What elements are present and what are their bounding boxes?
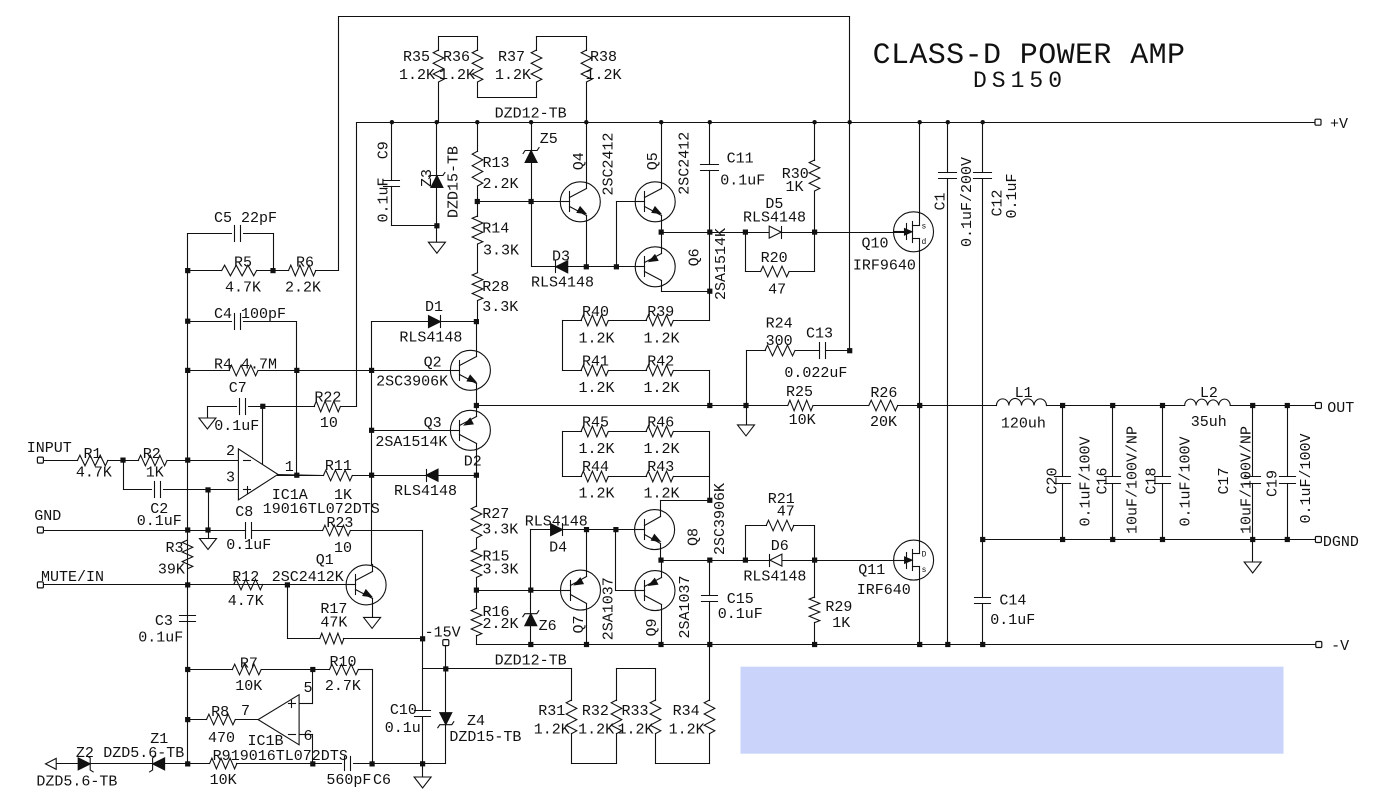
svg-text:0.1uF: 0.1uF <box>137 513 182 530</box>
svg-text:R9: R9 <box>213 748 231 765</box>
svg-text:C4 100pF: C4 100pF <box>214 306 286 323</box>
svg-text:D3: D3 <box>552 249 570 266</box>
svg-text:2.7K: 2.7K <box>325 678 361 695</box>
svg-text:3: 3 <box>226 470 235 487</box>
svg-text:DGND: DGND <box>1323 534 1359 551</box>
svg-text:1.2K: 1.2K <box>439 67 475 84</box>
svg-text:3.3K: 3.3K <box>482 299 518 316</box>
svg-text:+V: +V <box>1330 116 1348 133</box>
svg-text:0.1uF/100V: 0.1uF/100V <box>1078 436 1095 526</box>
svg-text:120uh: 120uh <box>1001 416 1046 433</box>
svg-text:C17: C17 <box>1216 467 1233 494</box>
svg-text:R11: R11 <box>325 458 352 475</box>
svg-text:R45: R45 <box>582 415 609 432</box>
svg-text:L1: L1 <box>1015 385 1033 402</box>
svg-text:3.3K: 3.3K <box>483 562 519 579</box>
svg-text:s: s <box>922 222 927 231</box>
svg-text:10: 10 <box>320 415 338 432</box>
svg-text:1.2K: 1.2K <box>579 486 615 503</box>
svg-text:47: 47 <box>777 504 795 521</box>
svg-text:RLS4148: RLS4148 <box>399 330 462 347</box>
svg-text:10uF/100V/NP: 10uF/100V/NP <box>1239 426 1256 534</box>
svg-text:R13: R13 <box>483 155 510 172</box>
svg-text:R27: R27 <box>482 506 509 523</box>
svg-text:1: 1 <box>285 459 294 476</box>
svg-text:DZD15-TB: DZD15-TB <box>446 146 463 218</box>
svg-text:RLS4148: RLS4148 <box>743 210 806 227</box>
svg-text:MUTE/IN: MUTE/IN <box>41 569 104 586</box>
svg-text:-15V: -15V <box>425 625 461 642</box>
svg-text:1.2K: 1.2K <box>534 721 570 738</box>
svg-text:470: 470 <box>208 730 235 747</box>
svg-text:D4: D4 <box>549 540 567 557</box>
svg-text:560pF: 560pF <box>326 772 371 789</box>
svg-text:OUT: OUT <box>1327 400 1354 417</box>
svg-text:0.1uF/200V: 0.1uF/200V <box>959 157 976 247</box>
svg-text:Q5: Q5 <box>645 152 662 170</box>
svg-text:s: s <box>922 566 927 575</box>
svg-text:2SA1037: 2SA1037 <box>677 575 694 638</box>
svg-text:5: 5 <box>304 680 313 697</box>
svg-text:DZD12-TB: DZD12-TB <box>495 106 567 123</box>
svg-text:2SA1514K: 2SA1514K <box>713 228 730 300</box>
svg-text:DZD5.6-TB: DZD5.6-TB <box>36 774 117 791</box>
svg-text:2: 2 <box>226 443 235 460</box>
svg-text:C13: C13 <box>806 326 833 343</box>
svg-text:2SA1514K: 2SA1514K <box>375 434 447 451</box>
svg-text:0.1uF: 0.1uF <box>375 177 392 222</box>
svg-text:C11: C11 <box>727 151 754 168</box>
svg-text:Q7: Q7 <box>571 615 588 633</box>
svg-text:R28: R28 <box>482 279 509 296</box>
svg-text:R5: R5 <box>234 255 252 272</box>
svg-text:R25: R25 <box>786 384 813 401</box>
svg-text:10K: 10K <box>235 678 262 695</box>
svg-text:2SC2412: 2SC2412 <box>600 132 617 195</box>
svg-text:Q6: Q6 <box>686 248 703 266</box>
svg-text:Z5: Z5 <box>540 131 558 148</box>
svg-text:RLS4148: RLS4148 <box>394 483 457 500</box>
svg-text:2SC3906K: 2SC3906K <box>712 483 729 555</box>
svg-text:1.2K: 1.2K <box>669 721 705 738</box>
svg-text:R42: R42 <box>647 354 674 371</box>
svg-text:0.022uF: 0.022uF <box>784 365 847 382</box>
svg-text:1.2K: 1.2K <box>579 331 615 348</box>
svg-text:R12: R12 <box>232 569 259 586</box>
svg-text:Z2: Z2 <box>76 745 94 762</box>
svg-text:Q4: Q4 <box>571 152 588 170</box>
svg-text:C10: C10 <box>390 702 417 719</box>
svg-text:1.2K: 1.2K <box>644 441 680 458</box>
svg-text:R39: R39 <box>647 304 674 321</box>
svg-text:R1: R1 <box>84 446 102 463</box>
svg-text:R24: R24 <box>766 316 793 333</box>
svg-text:4.7K: 4.7K <box>228 593 264 610</box>
svg-text:R37: R37 <box>498 49 525 66</box>
svg-text:RLS4148: RLS4148 <box>525 514 588 531</box>
svg-text:2SC2412K: 2SC2412K <box>272 569 344 586</box>
svg-text:R43: R43 <box>647 459 674 476</box>
svg-text:R6: R6 <box>296 255 314 272</box>
svg-text:1.2K: 1.2K <box>579 441 615 458</box>
svg-text:Q1: Q1 <box>316 552 334 569</box>
svg-text:2.2K: 2.2K <box>483 616 519 633</box>
svg-text:1.2K: 1.2K <box>644 331 680 348</box>
svg-text:R8: R8 <box>211 704 229 721</box>
svg-text:1.2K: 1.2K <box>579 380 615 397</box>
svg-text:C20: C20 <box>1045 467 1062 494</box>
svg-text:4.7K: 4.7K <box>225 280 261 297</box>
svg-text:RLS4148: RLS4148 <box>743 569 806 586</box>
svg-text:RLS4148: RLS4148 <box>531 275 594 292</box>
svg-text:R41: R41 <box>582 354 609 371</box>
svg-text:1.2K: 1.2K <box>644 380 680 397</box>
svg-text:3.3K: 3.3K <box>483 243 519 260</box>
svg-text:1.2K: 1.2K <box>644 486 680 503</box>
svg-text:2.2K: 2.2K <box>285 280 321 297</box>
svg-text:0.1u: 0.1u <box>385 720 421 737</box>
svg-text:Z3: Z3 <box>419 169 436 187</box>
svg-text:Q9: Q9 <box>644 618 661 636</box>
svg-text:4.7K: 4.7K <box>76 465 112 482</box>
svg-text:0.1uF/100V: 0.1uF/100V <box>1298 433 1315 523</box>
svg-text:20K: 20K <box>870 414 897 431</box>
svg-text:R22: R22 <box>314 390 341 407</box>
svg-text:0.1uF: 0.1uF <box>718 606 763 623</box>
svg-text:C8: C8 <box>235 504 253 521</box>
svg-text:1.2K: 1.2K <box>586 67 622 84</box>
svg-text:Q2: Q2 <box>424 355 442 372</box>
svg-text:DZD5.6-TB: DZD5.6-TB <box>103 745 184 762</box>
svg-text:R34: R34 <box>673 703 700 720</box>
svg-text:C18: C18 <box>1143 467 1160 494</box>
svg-text:C5 22pF: C5 22pF <box>214 210 277 227</box>
svg-text:47: 47 <box>768 282 786 299</box>
svg-text:1K: 1K <box>786 179 804 196</box>
svg-text:Q3: Q3 <box>424 415 442 432</box>
svg-text:C7: C7 <box>229 380 247 397</box>
svg-text:Z4: Z4 <box>467 713 485 730</box>
svg-text:IRF640: IRF640 <box>857 582 911 599</box>
svg-text:R7: R7 <box>240 656 258 673</box>
svg-text:R4 4.7M: R4 4.7M <box>214 357 277 374</box>
svg-text:10K: 10K <box>210 772 237 789</box>
svg-text:R26: R26 <box>870 385 897 402</box>
svg-text:7: 7 <box>241 703 250 720</box>
svg-text:2SC2412: 2SC2412 <box>677 132 694 195</box>
svg-text:R35: R35 <box>403 49 430 66</box>
svg-text:300: 300 <box>766 333 793 350</box>
svg-text:1K: 1K <box>146 465 164 482</box>
svg-text:0.1uF: 0.1uF <box>1004 173 1021 218</box>
svg-text:R32: R32 <box>582 703 609 720</box>
svg-text:47K: 47K <box>320 615 347 632</box>
svg-text:0.1uF: 0.1uF <box>990 612 1035 629</box>
svg-text:R14: R14 <box>482 221 509 238</box>
svg-text:10uF/100V/NP: 10uF/100V/NP <box>1125 426 1142 534</box>
svg-text:1.2K: 1.2K <box>618 721 654 738</box>
svg-text:d: d <box>922 238 927 247</box>
svg-text:D2: D2 <box>464 454 482 471</box>
svg-text:10K: 10K <box>789 412 816 429</box>
svg-text:IRF9640: IRF9640 <box>853 258 916 275</box>
svg-text:6: 6 <box>304 728 313 745</box>
svg-text:1.2K: 1.2K <box>399 67 435 84</box>
svg-text:R29: R29 <box>825 599 852 616</box>
svg-text:R33: R33 <box>622 703 649 720</box>
svg-text:C14: C14 <box>999 593 1026 610</box>
svg-text:35uh: 35uh <box>1191 414 1227 431</box>
svg-text:C1: C1 <box>933 192 950 210</box>
svg-text:D: D <box>922 551 927 560</box>
svg-text:R10: R10 <box>330 654 357 671</box>
svg-text:0.1uF: 0.1uF <box>720 173 765 190</box>
svg-text:DZD15-TB: DZD15-TB <box>449 729 521 746</box>
svg-text:2SA1037: 2SA1037 <box>601 577 618 640</box>
svg-text:1K: 1K <box>832 615 850 632</box>
svg-text:0.1uF: 0.1uF <box>214 418 259 435</box>
svg-text:C16: C16 <box>1095 467 1112 494</box>
svg-text:2.2K: 2.2K <box>483 176 519 193</box>
svg-text:INPUT: INPUT <box>27 440 72 457</box>
svg-text:R2: R2 <box>143 446 161 463</box>
svg-text:39K: 39K <box>158 562 185 579</box>
svg-text:1.2K: 1.2K <box>578 721 614 738</box>
svg-text:R3: R3 <box>166 540 184 557</box>
svg-text:C19: C19 <box>1265 470 1282 497</box>
svg-text:1.2K: 1.2K <box>495 67 531 84</box>
svg-text:R31: R31 <box>538 703 565 720</box>
svg-text:C3: C3 <box>155 613 173 630</box>
svg-text:D6: D6 <box>771 538 789 555</box>
svg-text:-V: -V <box>1331 638 1349 655</box>
svg-text:R36: R36 <box>443 49 470 66</box>
svg-text:3.3K: 3.3K <box>482 522 518 539</box>
svg-text:R38: R38 <box>590 49 617 66</box>
svg-text:2SC3906K: 2SC3906K <box>376 374 448 391</box>
svg-text:Z6: Z6 <box>539 618 557 635</box>
svg-text:19016TL072DTS: 19016TL072DTS <box>231 748 348 765</box>
svg-text:10: 10 <box>334 540 352 557</box>
svg-text:DZD12-TB: DZD12-TB <box>495 653 567 670</box>
svg-text:Q8: Q8 <box>686 528 703 546</box>
svg-text:R44: R44 <box>582 459 609 476</box>
svg-text:C9: C9 <box>375 141 392 159</box>
svg-text:Q11: Q11 <box>858 562 885 579</box>
svg-text:19016TL072DTS: 19016TL072DTS <box>263 501 380 518</box>
svg-text:0.1uF/100V: 0.1uF/100V <box>1178 436 1195 526</box>
svg-text:Q10: Q10 <box>862 236 889 253</box>
svg-text:0.1uF: 0.1uF <box>226 537 271 554</box>
svg-text:GND: GND <box>34 508 61 525</box>
svg-text:DS150: DS150 <box>973 68 1067 94</box>
svg-text:R20: R20 <box>761 250 788 267</box>
svg-text:C6: C6 <box>373 772 391 789</box>
svg-text:L2: L2 <box>1200 385 1218 402</box>
svg-text:D1: D1 <box>425 299 443 316</box>
svg-text:R46: R46 <box>647 415 674 432</box>
svg-text:0.1uF: 0.1uF <box>138 630 183 647</box>
svg-text:R40: R40 <box>582 304 609 321</box>
